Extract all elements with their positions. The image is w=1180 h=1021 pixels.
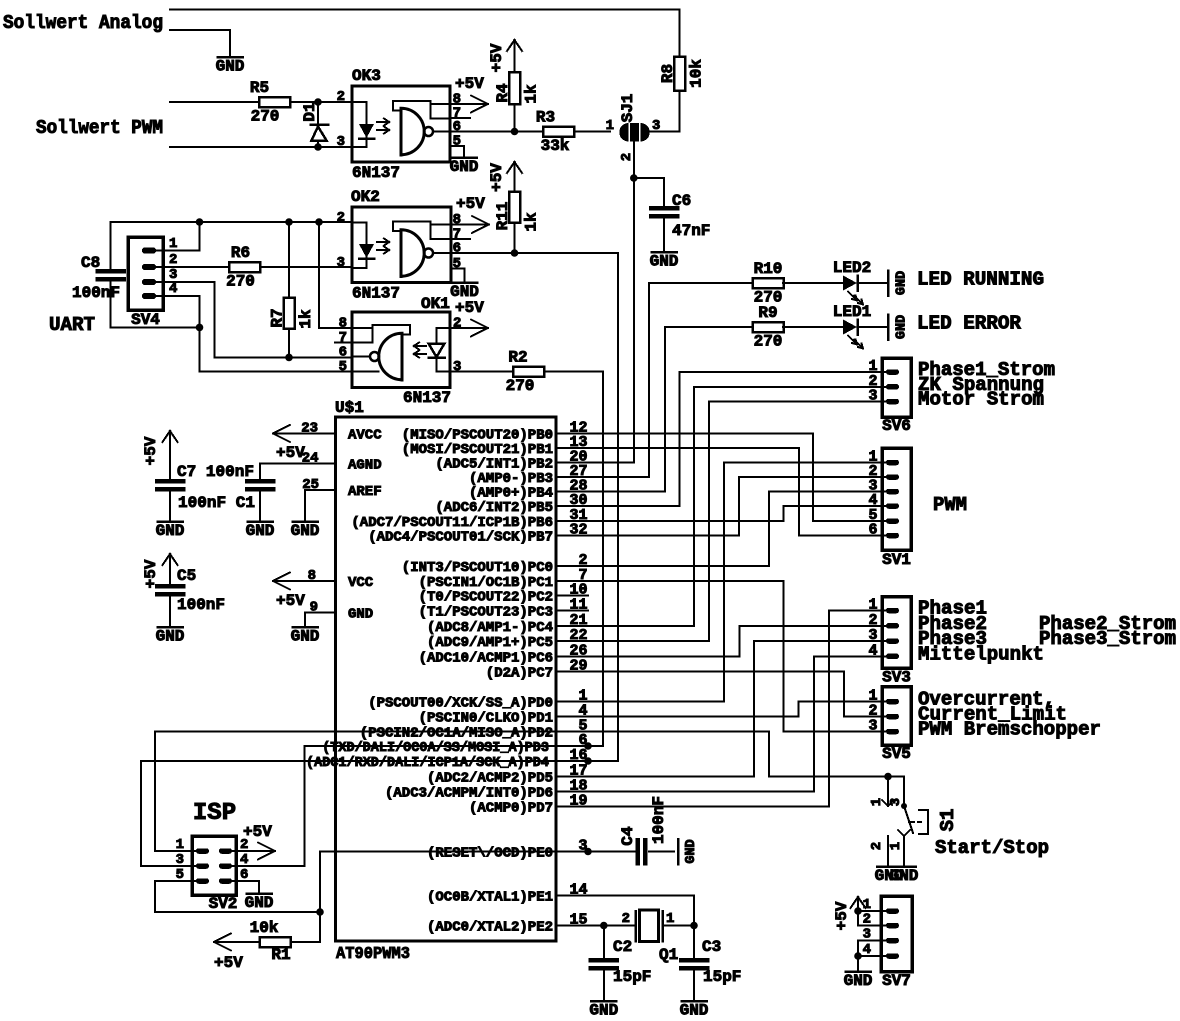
wire V665 LED1 to row28	[664, 327, 666, 492]
junction	[600, 922, 608, 930]
svg-text:LED ERROR: LED ERROR	[917, 313, 1022, 335]
wire row27 LED2	[588, 476, 649, 478]
ground	[846, 970, 871, 973]
svg-text:100nF: 100nF	[72, 284, 120, 302]
junction	[630, 174, 638, 182]
wire to C6	[634, 177, 664, 179]
wire V814 SV3.4 to PD6	[813, 656, 815, 791]
wire pin6 output	[451, 252, 514, 254]
wire SV4 pin2	[156, 266, 229, 268]
svg-text:GND: GND	[348, 607, 373, 623]
svg-text:(ADC8/AMP1-)PC4: (ADC8/AMP1-)PC4	[427, 620, 553, 636]
ground	[248, 520, 273, 523]
svg-text:+5V: +5V	[488, 163, 506, 192]
wire SV1.2	[739, 476, 886, 478]
resistor R11	[509, 192, 520, 223]
svg-text:3: 3	[337, 134, 345, 150]
svg-text:C8: C8	[81, 254, 100, 272]
svg-text:AREF: AREF	[348, 484, 382, 500]
svg-text:Start/Stop: Start/Stop	[935, 837, 1049, 859]
crystal Q1	[634, 911, 637, 941]
svg-text:C2: C2	[613, 938, 632, 956]
wire V799 SV1.6 to row13	[798, 448, 800, 536]
switch S1	[887, 777, 889, 807]
wire RESET down	[319, 852, 321, 943]
svg-text:(ADC10/ACMP1)PC6: (ADC10/ACMP1)PC6	[419, 650, 553, 666]
capacitor C1	[259, 464, 261, 482]
svg-text:AT90PWM3: AT90PWM3	[336, 945, 410, 964]
capacitor C4	[635, 840, 640, 863]
wire ISP pin5	[155, 880, 196, 882]
ground	[293, 626, 318, 629]
wire rowPD6 ACMPM	[588, 790, 814, 792]
resistor R4	[509, 72, 520, 104]
wire	[783, 326, 843, 328]
wire RESET row	[320, 851, 637, 853]
wire SV4 pin4	[156, 295, 200, 297]
wire rowPD1 PSCIN0	[588, 716, 799, 718]
svg-text:10k: 10k	[250, 919, 279, 937]
wire pin5 to gnd	[450, 145, 464, 147]
svg-text:4: 4	[169, 281, 177, 297]
svg-text:3: 3	[888, 798, 904, 806]
wire pin6 output	[450, 131, 514, 133]
svg-text:AVCC: AVCC	[348, 428, 382, 444]
wire +5V rail SV4	[111, 221, 353, 223]
svg-text:270: 270	[226, 273, 255, 291]
svg-text:(RESET\/OCD)PE0: (RESET\/OCD)PE0	[427, 846, 553, 862]
svg-text:LED1: LED1	[833, 303, 871, 321]
wire V618 OK2 out to PD4	[617, 253, 619, 761]
wire V754 SV3.3 to PD5	[753, 641, 755, 777]
svg-text:+5V: +5V	[276, 592, 305, 610]
ground	[677, 839, 680, 864]
svg-text:GND: GND	[156, 522, 185, 540]
wire SV5.3	[784, 731, 887, 733]
wire rowPD2 MISO	[155, 731, 769, 733]
svg-text:(ADC6/INT2)PB5: (ADC6/INT2)PB5	[435, 500, 553, 516]
wire rowPD0 PSCOUT00	[588, 701, 724, 703]
wire V783 row7 to SV5.3	[783, 581, 785, 732]
supply +5V OK3 pin8	[450, 103, 488, 105]
svg-text:LED2: LED2	[833, 259, 871, 277]
wire V603 OK1 out to PD3	[602, 372, 604, 747]
wire OK1 pin8	[319, 327, 352, 329]
junction	[315, 218, 323, 226]
wire row2 PSCOUT10	[588, 565, 769, 567]
wire row13 PSCOUT21	[588, 447, 799, 449]
svg-text:R2: R2	[508, 349, 527, 367]
ground	[877, 865, 901, 868]
svg-text:SV7: SV7	[882, 972, 911, 990]
junction	[285, 354, 293, 362]
svg-text:100nF: 100nF	[650, 796, 668, 844]
svg-text:+5V: +5V	[456, 195, 485, 213]
wire rowPD7 ACMP0	[588, 805, 829, 807]
svg-text:GND: GND	[684, 839, 699, 863]
svg-text:LED RUNNING: LED RUNNING	[917, 269, 1044, 291]
wire V769 PD2 to S1	[768, 732, 770, 777]
wire AREF to gnd	[305, 489, 336, 491]
svg-text:33k: 33k	[541, 137, 570, 155]
svg-text:+5V: +5V	[243, 823, 272, 841]
diode D1	[317, 102, 319, 125]
LED LED1	[843, 320, 857, 335]
svg-text:GND: GND	[246, 522, 275, 540]
wire ISP pin6 gnd	[232, 880, 259, 882]
svg-text:2: 2	[337, 89, 345, 105]
wire	[514, 131, 543, 133]
svg-text:UART: UART	[49, 314, 95, 336]
ground	[158, 626, 183, 629]
wire OK2 output right	[514, 252, 618, 254]
svg-text:GND: GND	[291, 628, 320, 646]
wire PE1 XTAL1	[588, 895, 694, 897]
wire SV3.2	[740, 625, 887, 627]
wire LED RUNNING row	[649, 282, 753, 284]
ground	[247, 892, 272, 895]
wire	[783, 282, 843, 284]
svg-text:1: 1	[888, 842, 904, 850]
svg-text:SV4: SV4	[131, 311, 160, 329]
wire V739 SV1.2 to row32	[738, 477, 740, 536]
svg-text:(ACMP0)PD7: (ACMP0)PD7	[469, 800, 553, 816]
svg-text:(ADC4/PSCOUT01/SCK)PB7: (ADC4/PSCOUT01/SCK)PB7	[368, 530, 553, 546]
svg-text:10k: 10k	[688, 59, 706, 88]
svg-text:AGND: AGND	[348, 458, 382, 474]
resistor R8	[674, 57, 685, 91]
svg-text:(PSCIN0/CLKO)PD1: (PSCIN0/CLKO)PD1	[419, 711, 553, 727]
connector SV3	[882, 597, 911, 669]
svg-text:1k: 1k	[523, 212, 541, 232]
svg-text:R6: R6	[231, 244, 250, 262]
ground	[887, 315, 890, 340]
wire V694 SV6.2 to row21	[693, 387, 695, 626]
resistor R7	[284, 298, 295, 329]
wire SV4 pin1	[156, 250, 200, 252]
svg-text:+5V: +5V	[214, 954, 243, 972]
svg-text:GND: GND	[895, 315, 910, 339]
wire Sollwert PWM bottom	[170, 146, 352, 148]
wire SJ1 pin2 down	[633, 142, 635, 463]
supply +5V R4	[514, 40, 516, 56]
wire	[858, 282, 887, 284]
svg-text:C3: C3	[702, 938, 721, 956]
junction	[584, 742, 592, 750]
supply +5V OK2 pin8	[451, 224, 489, 226]
junction	[584, 848, 592, 856]
svg-text:R3: R3	[536, 109, 555, 127]
wire ISP pin1 MISO	[155, 850, 196, 852]
svg-text:(ADC9/AMP1+)PC5: (ADC9/AMP1+)PC5	[427, 635, 553, 651]
wire SV3.1	[829, 610, 886, 612]
wire ISP pin5 row	[155, 911, 320, 913]
svg-text:(ADC3/ACMPM/INT0)PD6: (ADC3/ACMPM/INT0)PD6	[385, 785, 553, 801]
wire SV3.4	[814, 655, 886, 657]
svg-text:2: 2	[453, 316, 461, 332]
wire rowPD4 SCK RXD	[141, 760, 618, 762]
svg-text:SV2: SV2	[209, 895, 238, 913]
svg-text:SV5: SV5	[882, 745, 911, 763]
wire ISP pin4 MOSI	[232, 865, 305, 867]
wire V813 SV1.5 to row12	[812, 434, 814, 522]
svg-text:(T1/PSCOUT23)PC3: (T1/PSCOUT23)PC3	[419, 605, 553, 621]
wire V798 SV5.1 jog	[798, 702, 800, 717]
svg-text:GND: GND	[844, 972, 873, 990]
svg-text:1k: 1k	[523, 84, 541, 104]
svg-text:2: 2	[869, 842, 885, 850]
svg-text:R4: R4	[494, 83, 512, 103]
svg-text:(ADC1/RXD/DALI/ICP1A/SCK_A)PD4: (ADC1/RXD/DALI/ICP1A/SCK_A)PD4	[306, 755, 549, 771]
svg-text:Motor Strom: Motor Strom	[918, 389, 1044, 411]
svg-text:(ADC2/ACMP2)PD5: (ADC2/ACMP2)PD5	[427, 771, 553, 787]
svg-text:270: 270	[251, 108, 280, 126]
wire pin7 stub	[450, 117, 470, 119]
svg-text:Q1: Q1	[659, 946, 678, 964]
connector SV5	[882, 687, 911, 746]
wire Sollwert Analog gnd stub	[170, 29, 230, 31]
supply +5V OK1 pin2	[450, 327, 488, 329]
svg-text:100nF: 100nF	[177, 596, 225, 614]
svg-text:15pF: 15pF	[613, 968, 651, 986]
wire	[291, 941, 320, 943]
svg-text:1: 1	[869, 798, 885, 806]
wire S1 row	[769, 776, 904, 778]
svg-text:SV6: SV6	[882, 417, 911, 435]
wire	[574, 131, 610, 133]
ground	[452, 156, 477, 159]
svg-text:2: 2	[619, 153, 635, 161]
wire SV5.1	[799, 701, 887, 703]
junction	[511, 249, 519, 257]
svg-text:(PSCOUT00/XCK/SS_A)PD0: (PSCOUT00/XCK/SS_A)PD0	[368, 696, 553, 712]
junction	[314, 143, 322, 151]
capacitor C5	[169, 554, 171, 569]
wire SV1.4	[784, 505, 887, 507]
svg-text:VCC: VCC	[348, 575, 374, 591]
svg-text:SJ1: SJ1	[619, 94, 637, 123]
wire OK1 pin3	[450, 371, 512, 373]
ground	[652, 251, 677, 254]
ground	[591, 1000, 616, 1003]
ground	[892, 865, 916, 868]
wire SV6.3	[709, 401, 886, 403]
resistor R5	[259, 97, 290, 107]
svg-text:GND: GND	[216, 58, 245, 76]
wire row32 PSCOUT01	[588, 535, 739, 537]
svg-text:SV1: SV1	[882, 551, 911, 569]
wire row22 AMP1+	[588, 640, 709, 642]
wire pin5 to gnd	[451, 268, 465, 270]
svg-text:100nF C1: 100nF C1	[178, 494, 255, 512]
wire V829 SV3.1 to PD7	[828, 611, 830, 807]
resistor R1	[260, 937, 291, 947]
svg-text:C7 100nF: C7 100nF	[177, 463, 254, 481]
svg-text:(ADC0/XTAL2)PE2: (ADC0/XTAL2)PE2	[427, 920, 553, 936]
svg-text:OK3: OK3	[352, 67, 381, 85]
svg-text:R9: R9	[758, 304, 777, 322]
wire V769 SV1.3 to row2	[768, 492, 770, 567]
resistor R9	[753, 322, 784, 332]
wire row28 LED1	[588, 491, 665, 493]
supply +5V AVCC	[273, 433, 336, 435]
svg-text:2: 2	[337, 210, 345, 226]
wire SV5.2	[844, 716, 886, 718]
svg-text:47nF: 47nF	[672, 222, 710, 240]
svg-text:GND: GND	[589, 1002, 618, 1020]
svg-text:GND: GND	[890, 867, 919, 885]
svg-text:C5: C5	[177, 567, 196, 585]
wire SV1.5	[813, 520, 886, 522]
ground	[158, 520, 183, 523]
svg-text:1k: 1k	[297, 309, 315, 329]
svg-text:Sollwert PWM: Sollwert PWM	[36, 117, 163, 139]
supply +5V R11	[514, 162, 516, 178]
svg-text:+5V: +5V	[455, 75, 484, 93]
svg-text:C6: C6	[672, 192, 691, 210]
supply +5V ISP pin2	[232, 850, 275, 852]
wire	[290, 101, 352, 103]
wire SV4 pin3	[156, 281, 215, 283]
svg-text:1: 1	[606, 118, 614, 134]
svg-text:Mittelpunkt: Mittelpunkt	[918, 643, 1044, 665]
svg-text:3: 3	[453, 359, 461, 375]
wire	[663, 925, 695, 927]
junction	[854, 952, 862, 960]
svg-text:GND: GND	[156, 628, 185, 646]
resistor R2	[513, 367, 544, 377]
resistor R3	[543, 127, 574, 137]
wire Sollwert Analog to R8	[170, 9, 679, 11]
resistor R6	[229, 262, 260, 272]
wire to OK1 pin6	[215, 356, 352, 358]
ground	[293, 520, 318, 523]
supply +5V SV7	[857, 897, 859, 911]
junction	[316, 908, 324, 916]
svg-text:+5V: +5V	[488, 43, 506, 72]
wire SV7.4	[858, 955, 886, 957]
supply +5V VCC	[273, 580, 336, 582]
LED LED2	[843, 276, 857, 291]
wire SV6.2	[694, 386, 886, 388]
junction	[854, 907, 862, 915]
junction	[511, 128, 519, 136]
wire GND pin	[305, 612, 336, 614]
svg-text:270: 270	[506, 377, 535, 395]
svg-text:R7: R7	[269, 308, 287, 327]
ground	[887, 271, 890, 296]
wire AGND	[260, 463, 336, 465]
wire row21 AMP1-	[588, 625, 694, 627]
connector SV7	[881, 896, 912, 972]
svg-text:3: 3	[337, 255, 345, 271]
wire row20 INT1	[588, 462, 634, 464]
svg-text:PWM: PWM	[933, 494, 967, 516]
svg-text:R11: R11	[494, 202, 512, 231]
wire SV1.6	[799, 535, 886, 537]
junction	[314, 98, 322, 106]
svg-text:(D2A)PC7: (D2A)PC7	[486, 665, 553, 681]
wire SV7.1	[858, 910, 886, 912]
supply +5V R1	[214, 941, 259, 943]
svg-text:OK2: OK2	[351, 188, 380, 206]
wire row31 PSCOUT11	[588, 520, 784, 522]
connector SV1	[882, 448, 911, 550]
wire	[649, 851, 674, 853]
junction	[285, 218, 293, 226]
wire R6 to OK2 pin3	[260, 266, 352, 268]
wire R2 right	[545, 371, 603, 373]
wire pin7 stub	[335, 342, 352, 344]
svg-text:SV3: SV3	[882, 669, 911, 687]
svg-text:GND: GND	[680, 1002, 709, 1020]
junction	[584, 757, 592, 765]
junction	[884, 773, 892, 781]
ground	[218, 56, 243, 59]
wire row12 PSCOUT20	[588, 433, 813, 435]
wire V783 SV1.4 jog	[783, 506, 785, 521]
svg-text:GND: GND	[895, 271, 910, 295]
svg-text:C4: C4	[619, 826, 637, 846]
wire LED ERROR row	[665, 326, 753, 328]
wire C8 bottom	[111, 326, 200, 328]
svg-text:5: 5	[453, 134, 461, 150]
svg-text:+5V: +5V	[455, 299, 484, 317]
capacitor C8	[110, 222, 112, 271]
wire V844 SV5.2 to D2A	[843, 671, 845, 716]
svg-text:S1: S1	[937, 809, 959, 832]
svg-text:270: 270	[754, 333, 783, 351]
svg-text:R10: R10	[754, 260, 783, 278]
resistor R10	[753, 278, 784, 288]
wire V739 SV3.2 to row26	[739, 626, 741, 657]
wire SV3.3	[754, 640, 886, 642]
wire V679 SV6.1 to row30	[679, 372, 681, 506]
wire PE2 XTAL2	[588, 925, 636, 927]
wire SJ1 pin3 to R8	[649, 131, 679, 133]
wire V724 SV1.1 to PD0	[723, 463, 725, 702]
junction	[690, 922, 698, 930]
svg-text:U$1: U$1	[335, 399, 364, 417]
capacitor C2	[603, 926, 605, 961]
svg-text:6: 6	[453, 241, 461, 257]
svg-text:OK1: OK1	[421, 295, 450, 313]
wire SV1.1	[724, 462, 886, 464]
svg-text:2: 2	[622, 911, 630, 927]
svg-text:+5V: +5V	[833, 901, 851, 930]
svg-text:6N137: 6N137	[352, 164, 400, 182]
wire row29 D2A	[588, 670, 844, 672]
wire SV1.3	[769, 491, 886, 493]
ground	[682, 1000, 707, 1003]
svg-text:+5V: +5V	[142, 436, 160, 465]
svg-text:GND: GND	[291, 522, 320, 540]
wire rowPD5 ACMP2	[588, 776, 754, 778]
svg-text:(INT3/PSCOUT10)PC0: (INT3/PSCOUT10)PC0	[402, 560, 553, 576]
wire rowPD3 MOSI TXD	[305, 745, 604, 747]
svg-text:6N137: 6N137	[352, 285, 400, 303]
wire SV6.1	[680, 371, 887, 373]
svg-text:15pF: 15pF	[703, 968, 741, 986]
svg-text:5: 5	[453, 256, 461, 272]
wire ISP pin3 SCK	[141, 865, 196, 867]
svg-text:(TXD/DALI/OC0A/SS/MOSI_A)PD3: (TXD/DALI/OC0A/SS/MOSI_A)PD3	[322, 740, 549, 756]
svg-text:PWM Bremschopper: PWM Bremschopper	[918, 719, 1101, 741]
wire V709 SV6.3 to row22	[708, 402, 710, 642]
wire pin7 stub	[451, 238, 470, 240]
wire row26 ACMP1	[588, 655, 739, 657]
connector SV4	[128, 237, 163, 310]
